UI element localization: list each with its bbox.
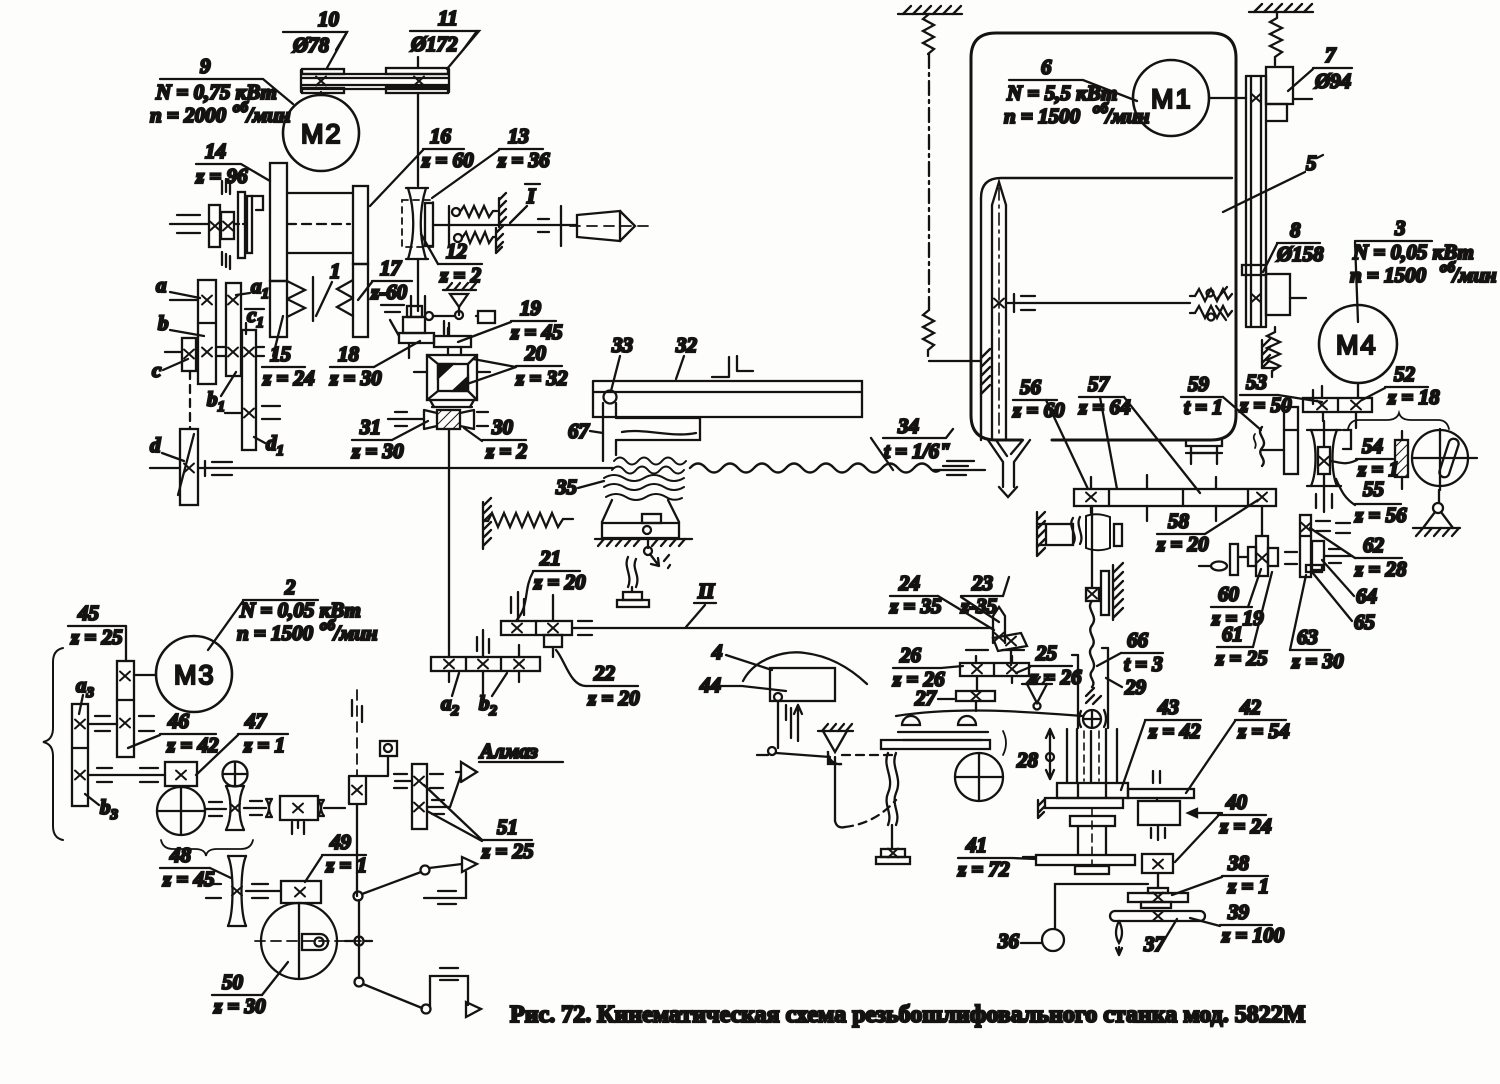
svg-text:z-35: z-35	[960, 594, 997, 618]
label b2	[479, 673, 507, 719]
lower plates of column 43	[1038, 798, 1123, 874]
svg-text:6: 6	[1041, 55, 1052, 79]
under brace 48 group	[161, 840, 253, 856]
worm 12 on vertical shaft	[402, 188, 433, 316]
gear column d1	[225, 323, 280, 450]
svg-text:13: 13	[508, 124, 529, 148]
gear 43 z=42	[1057, 783, 1128, 798]
label 64	[1322, 560, 1377, 608]
svg-text:28: 28	[1016, 748, 1039, 772]
big brace left	[43, 648, 63, 840]
svg-text:п = 1500: п = 1500	[237, 621, 314, 645]
svg-text:z = 2: z = 2	[485, 439, 528, 463]
svg-text:z = 20: z = 20	[587, 686, 640, 710]
label 9 motor data	[150, 54, 293, 127]
shaft II	[572, 621, 986, 635]
svg-text:N = 0,05 кВт: N = 0,05 кВт	[1352, 240, 1474, 264]
svg-text:z = 100: z = 100	[1221, 923, 1285, 947]
svg-text:55: 55	[1363, 477, 1384, 501]
label 46 z=42	[128, 709, 219, 757]
svg-text:z = 36: z = 36	[497, 148, 550, 172]
svg-text:3: 3	[1394, 216, 1406, 240]
gear 17 z-60	[353, 264, 368, 337]
svg-text:z = 30: z = 30	[1291, 649, 1344, 673]
svg-text:21: 21	[539, 546, 561, 570]
label c	[152, 358, 188, 382]
svg-text:14: 14	[205, 139, 226, 163]
shafts a3-45	[88, 716, 165, 782]
svg-text:M2: M2	[301, 119, 343, 149]
label 54 z=1	[1330, 434, 1399, 481]
gear column 45	[117, 661, 134, 757]
svg-text:45: 45	[77, 601, 99, 625]
label 53 z=50	[1239, 370, 1322, 417]
svg-text:67: 67	[568, 419, 591, 443]
body bottom pedestal	[1186, 440, 1222, 464]
label 65	[1312, 572, 1375, 634]
svg-text:24: 24	[898, 571, 920, 595]
svg-text:1: 1	[330, 259, 341, 283]
worm gear 54/55	[1307, 421, 1351, 512]
label 27	[914, 686, 954, 710]
shaft I springs	[452, 193, 506, 253]
anchor pivot with hatch	[818, 724, 853, 764]
svg-text:35: 35	[555, 475, 577, 499]
svg-text:40: 40	[1225, 790, 1248, 814]
label 37	[1143, 919, 1177, 956]
coupling 38	[1128, 888, 1188, 908]
svg-text:54: 54	[1362, 434, 1383, 458]
label 35	[555, 475, 604, 499]
label 30 z=2	[464, 415, 528, 463]
worm 47 box	[165, 762, 197, 786]
svg-text:z = 60: z = 60	[1012, 398, 1065, 422]
svg-text:33: 33	[611, 333, 633, 357]
ground under pedestal	[595, 539, 692, 546]
svg-text:31: 31	[359, 415, 381, 439]
svg-text:53: 53	[1246, 370, 1267, 394]
label 16 z=60	[370, 124, 474, 206]
gear 13 z=36	[425, 203, 433, 246]
gear 42 z=54	[1128, 771, 1194, 801]
svg-text:63: 63	[1297, 625, 1318, 649]
spring above pulley 7	[1270, 12, 1282, 65]
vertical slide column to diamond	[349, 690, 397, 896]
svg-text:z = 60: z = 60	[421, 148, 474, 172]
belt column between pulleys 7 and 8	[1246, 76, 1266, 327]
gear bar 53 52	[1303, 386, 1372, 428]
label 56 z=60	[1012, 375, 1088, 489]
worm gear 40 box	[1142, 825, 1173, 888]
grinding spindle slide	[992, 182, 1006, 440]
gear column a3/b3	[72, 704, 88, 806]
label 57 z=64	[1078, 372, 1200, 493]
svg-text:17: 17	[380, 256, 403, 280]
belt pulley 10	[301, 69, 449, 93]
label 43 z=42	[1121, 695, 1201, 790]
label 40 z=24	[1175, 790, 1272, 862]
svg-text:59: 59	[1188, 372, 1210, 396]
diamond flag	[456, 762, 477, 782]
svg-text:z = 42: z = 42	[166, 733, 219, 757]
svg-text:z = 28: z = 28	[1354, 557, 1407, 581]
rack bar 41 z=72	[1023, 855, 1135, 865]
svg-text:29: 29	[1124, 675, 1147, 699]
label 58 z=20	[1156, 500, 1258, 556]
svg-text:z = 72: z = 72	[957, 857, 1010, 881]
svg-text:39: 39	[1227, 900, 1250, 924]
svg-text:8: 8	[1290, 218, 1301, 242]
label 52 z=18	[1362, 362, 1440, 409]
svg-text:z = 32: z = 32	[515, 366, 568, 390]
svg-text:26: 26	[899, 643, 922, 667]
beam 28 lever	[881, 711, 1083, 749]
gear bar a2 b2	[431, 630, 540, 695]
label b1	[207, 372, 236, 415]
vertical shaft from 20 down to a2 bar	[448, 429, 450, 657]
spring below pulley 8	[1262, 327, 1280, 377]
svg-text:30: 30	[491, 415, 514, 439]
svg-text:z = 20: z = 20	[1156, 532, 1209, 556]
svg-text:7: 7	[1325, 43, 1337, 67]
gear d	[178, 429, 198, 505]
ceiling hatch right	[1249, 4, 1313, 12]
svg-text:/мин: /мин	[1451, 263, 1497, 287]
chevron clutch on 17	[337, 280, 353, 316]
svg-text:23: 23	[971, 571, 993, 595]
label 32	[675, 333, 698, 379]
gear c	[165, 338, 196, 371]
svg-text:z = 25: z = 25	[481, 839, 534, 863]
svg-text:t = 1/6": t = 1/6"	[884, 439, 951, 463]
svg-text:z = 25: z = 25	[1215, 646, 1268, 670]
chevron clutch 1	[287, 277, 313, 321]
svg-text:Ø172: Ø172	[410, 32, 458, 56]
svg-text:N = 0,05 кВт: N = 0,05 кВт	[239, 598, 361, 622]
svg-text:I: I	[526, 184, 536, 208]
splined column 43	[1067, 729, 1117, 783]
label 34 t=1/6	[871, 414, 953, 470]
wheelhead cross shaft	[1006, 294, 1190, 312]
svg-text:43: 43	[1157, 695, 1179, 719]
svg-text:n = 1500: n = 1500	[1004, 104, 1081, 128]
motor M1	[1133, 60, 1246, 136]
label 23 z-35	[960, 571, 1009, 622]
gear 16 z=60	[353, 186, 368, 264]
label d1	[254, 431, 284, 459]
svg-text:61: 61	[1222, 622, 1243, 646]
svg-text:M1: M1	[1151, 84, 1193, 114]
label a2	[441, 673, 460, 719]
svg-text:Алмаз: Алмаз	[478, 739, 538, 763]
label 24 z=35	[889, 571, 994, 630]
svg-text:22: 22	[593, 661, 616, 685]
label 8 Ø158	[1263, 218, 1324, 272]
svg-text:38: 38	[1227, 851, 1250, 875]
svg-text:z = 24: z = 24	[262, 366, 315, 390]
label II	[686, 579, 716, 627]
gear 14 z=96	[270, 163, 287, 281]
svg-text:d: d	[150, 433, 161, 457]
svg-text:M4: M4	[1336, 330, 1378, 360]
svg-text:z = 25: z = 25	[70, 625, 123, 649]
suspension spring and dash-dot hanger	[923, 14, 981, 361]
svg-text:a: a	[156, 273, 167, 297]
shaft break and gear box right of 47 wheel	[266, 796, 345, 834]
machine body inner panel line	[981, 178, 1232, 440]
label 33	[611, 333, 633, 391]
worm wheel 46	[157, 787, 205, 835]
svg-text:27: 27	[914, 686, 938, 710]
svg-text:4: 4	[711, 640, 723, 664]
label 51 z=25	[424, 785, 534, 863]
label I	[510, 184, 540, 223]
machine body outer case	[971, 33, 1236, 440]
label 48 z=45	[160, 843, 231, 891]
link channel 29	[1072, 648, 1108, 728]
shifter fork stack left of 19	[390, 306, 434, 358]
svg-text:41: 41	[965, 833, 987, 857]
label 2 motor data M3	[208, 575, 378, 650]
svg-text:51: 51	[497, 815, 518, 839]
hatched wall patch on body left	[981, 349, 990, 394]
label b3	[85, 794, 119, 823]
carriage pedestal under 35	[602, 500, 679, 538]
label 41 z=72	[957, 833, 1036, 881]
label a3	[76, 673, 95, 714]
horizontal spring to carriage	[483, 498, 573, 549]
svg-text:z = 30: z = 30	[213, 994, 266, 1018]
svg-text:N = 0,75 кВт: N = 0,75 кВт	[155, 80, 277, 104]
label 59 t=1	[1181, 372, 1261, 430]
shaft of gear d with long wire right	[150, 461, 613, 476]
svg-text:z-60: z-60	[370, 280, 408, 304]
svg-text:10: 10	[318, 7, 340, 31]
trip dogs on rail 32	[712, 356, 753, 377]
cam 4	[743, 652, 867, 701]
sleeve between 14 and 16	[287, 193, 353, 253]
index plate 39 z=100	[1110, 911, 1205, 955]
label 47 z=1	[196, 709, 288, 775]
label 29	[1106, 675, 1147, 699]
body funnel spout	[988, 440, 1030, 497]
letters gear column a/b	[170, 280, 216, 384]
label 10 Ø78	[283, 7, 347, 68]
svg-text:n = 2000: n = 2000	[150, 103, 227, 127]
label a1	[236, 274, 269, 302]
label 44	[699, 673, 786, 697]
label b	[158, 311, 204, 336]
svg-text:c: c	[152, 358, 162, 382]
svg-text:z = 1: z = 1	[1227, 874, 1269, 898]
gear bar 25/26	[960, 650, 1029, 691]
label 39 z=100	[1190, 900, 1285, 947]
svg-text:46: 46	[167, 709, 190, 733]
label 38 z=1	[1172, 851, 1269, 898]
worm 49 box	[281, 881, 321, 903]
svg-text:Ø78: Ø78	[292, 33, 330, 57]
label 6 motor data M1	[1004, 55, 1150, 128]
svg-text:57: 57	[1088, 372, 1111, 396]
swing arm down	[835, 757, 896, 827]
detent lever above 20	[425, 283, 495, 336]
label 4	[711, 640, 772, 670]
hatched wall left of feed bar	[1037, 512, 1122, 556]
label 26 z=26	[892, 643, 963, 691]
label 5 grinding wheel belt	[1223, 151, 1323, 212]
label Almaz	[478, 739, 563, 763]
gear column a1/b1	[226, 283, 241, 376]
svg-text:z = 18: z = 18	[1387, 385, 1440, 409]
svg-text:z = 45: z = 45	[162, 867, 215, 891]
gears 63 64 65	[1306, 541, 1352, 572]
svg-text:60: 60	[1218, 582, 1240, 606]
label 66 t=3	[1097, 628, 1163, 676]
belt pulley 11	[386, 57, 448, 186]
clutch block under 42	[1138, 801, 1222, 825]
svg-text:t = 3: t = 3	[1124, 652, 1163, 676]
hanging cord and weight	[876, 753, 910, 864]
gear train 60 61 cluster	[1199, 536, 1297, 576]
swing linkage with flags	[345, 857, 481, 1017]
splined shaft and flexible drive 66	[1086, 506, 1123, 687]
svg-text:M3: M3	[174, 660, 216, 690]
gear column 51	[394, 764, 461, 829]
clamp bracket 67	[603, 403, 700, 461]
roller under beam	[955, 753, 1003, 801]
svg-text:36: 36	[997, 929, 1020, 953]
svg-text:z = 26: z = 26	[1029, 665, 1082, 689]
svg-text:16: 16	[430, 124, 452, 148]
label 55 z=56	[1336, 477, 1407, 527]
svg-text:Рис. 72. Кинематическая схема: Рис. 72. Кинематическая схема резьбошлиф…	[510, 1002, 1305, 1028]
label c1	[245, 303, 264, 331]
flexible shaft 59	[1254, 427, 1284, 466]
bevel gear assembly 30/31	[388, 400, 488, 429]
motor M2	[283, 92, 359, 171]
cam follower and ratchet left	[757, 693, 830, 757]
svg-text:50: 50	[222, 970, 244, 994]
label 61 z=25	[1215, 572, 1272, 670]
gear bar 19 z=45	[434, 328, 471, 355]
detent lever under carriage	[617, 538, 670, 607]
svg-text:Ø94: Ø94	[1314, 69, 1351, 93]
svg-text:z = 56: z = 56	[1354, 503, 1407, 527]
svg-text:65: 65	[1354, 610, 1375, 634]
label 12 z=2	[421, 234, 482, 287]
svg-text:II: II	[697, 579, 715, 603]
label a	[156, 273, 200, 298]
svg-text:z = 42: z = 42	[1148, 719, 1201, 743]
svg-text:z = 30: z = 30	[351, 439, 404, 463]
anchor near 26	[1022, 677, 1052, 710]
svg-text:z = 1: z = 1	[243, 733, 285, 757]
svg-text:34: 34	[897, 414, 919, 438]
rail 32	[593, 381, 862, 417]
svg-text:58: 58	[1168, 509, 1190, 533]
svg-text:48: 48	[169, 843, 192, 867]
gear 23 z-35 pointed	[986, 607, 1027, 665]
svg-text:5: 5	[1306, 151, 1317, 175]
pulley 7 Ø94	[1251, 67, 1312, 121]
handwheel 36? right	[1412, 429, 1477, 536]
label 18 z=30	[329, 341, 420, 390]
gear bar 27	[956, 691, 995, 711]
crank disc 50 z=30	[255, 903, 372, 979]
svg-text:z = 35: z = 35	[889, 594, 942, 618]
gear 48 z=45 wheel	[206, 856, 281, 926]
nut 35	[604, 475, 684, 500]
label 42 z=54	[1186, 695, 1290, 793]
label 60 z=19	[1211, 569, 1264, 630]
label 21 z=20	[516, 546, 586, 621]
label 13 z=36	[432, 124, 550, 198]
feed gear bar 56 57 58 59	[1074, 475, 1276, 521]
svg-text:25: 25	[1035, 641, 1057, 665]
svg-text:42: 42	[1239, 695, 1262, 719]
svg-text:9: 9	[200, 54, 211, 78]
label 17 z-60	[358, 256, 412, 312]
label 49 z=1	[305, 830, 367, 882]
svg-text:19: 19	[520, 296, 542, 320]
svg-text:49: 49	[329, 830, 352, 854]
label 67	[568, 419, 603, 443]
brace over handwheel	[1348, 413, 1449, 429]
label 20 z=32	[467, 341, 568, 390]
tailstock centre cone	[570, 211, 655, 241]
svg-text:z = 54: z = 54	[1237, 719, 1290, 743]
clutch assembly on shaft 14	[170, 179, 263, 269]
leadscrew thread on shaft I	[612, 458, 985, 476]
svg-text:z = 24: z = 24	[1219, 814, 1272, 838]
dashed trip line	[842, 754, 894, 756]
svg-text:56: 56	[1020, 375, 1042, 399]
label 31 z=30	[351, 415, 428, 463]
svg-text:32: 32	[675, 333, 698, 357]
svg-text:z = 1: z = 1	[325, 853, 367, 877]
label 22 z=20	[556, 650, 640, 710]
label 50 z=30	[212, 962, 288, 1018]
svg-text:Ø158: Ø158	[1276, 242, 1324, 266]
svg-text:20: 20	[524, 341, 547, 365]
follower roller 33	[604, 391, 617, 404]
label d	[150, 433, 184, 461]
gear 15 z=24	[270, 281, 287, 337]
svg-text:52: 52	[1394, 362, 1416, 386]
svg-text:2: 2	[284, 575, 296, 599]
handwheel shaft hatched block	[1395, 431, 1408, 489]
label 62 z=28	[1310, 528, 1407, 581]
crank joint on 29	[1079, 710, 1106, 728]
shaft I with tick	[433, 206, 577, 246]
dashed link c to d	[189, 371, 191, 429]
label 14 z=96	[195, 139, 270, 188]
svg-text:z = 30: z = 30	[329, 366, 382, 390]
label 36	[997, 929, 1041, 953]
svg-text:18: 18	[338, 342, 360, 366]
svg-text:47: 47	[244, 709, 268, 733]
svg-text:n = 1500: n = 1500	[1350, 263, 1427, 287]
maltese cross mechanism 20 z=32	[414, 355, 490, 400]
shaft 46-47 wheel	[205, 801, 266, 816]
knob circle and wheel column	[223, 762, 248, 831]
svg-text:66: 66	[1127, 628, 1149, 652]
support marks between letter gears	[217, 347, 264, 356]
label 28 with arrow	[1003, 729, 1054, 779]
svg-text:b: b	[158, 311, 169, 335]
label 45 z=25	[68, 601, 126, 661]
label 1	[316, 259, 341, 316]
